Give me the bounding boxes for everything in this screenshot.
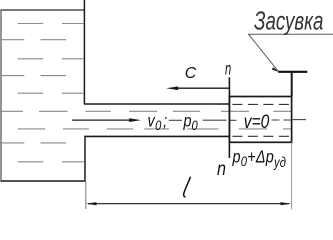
dimension extension line right: [291, 142, 293, 209]
dimension line l: [86, 202, 291, 205]
water dashes row 4: [0, 75, 66, 77]
dimension extension line left: [85, 181, 87, 209]
water surface line: [1, 9, 85, 11]
centerline dash between labels: [169, 119, 182, 121]
svg-text:n: n: [225, 59, 231, 79]
valve T-bar: [278, 71, 307, 73]
flow arrow v0: [72, 118, 141, 122]
wave speed arrow C: [166, 86, 229, 90]
dashed pipe bottom wall inside box: [232, 135, 291, 137]
water dashes row 3: [18, 58, 84, 60]
pipe top wall: [84, 103, 230, 105]
tank right wall lower: [84, 136, 86, 182]
centerline stub right of valve: [292, 119, 306, 121]
tank bottom wall: [1, 180, 86, 182]
wave-front section line n-n: [228, 77, 230, 158]
water dashes row 2: [0, 39, 66, 41]
dashed pipe top wall inside box: [232, 103, 291, 105]
centerline dashes right of p0: [203, 119, 227, 121]
swollen pipe section box: [229, 97, 291, 143]
pipe bottom wall: [85, 135, 230, 137]
water dashes row 1: [18, 23, 84, 25]
water dashes row 7: [0, 142, 66, 144]
svg-text:n: n: [217, 158, 226, 180]
centerline dashes inside box right: [272, 119, 292, 121]
valve stem: [291, 72, 293, 97]
svg-text:Засувка: Засувка: [254, 5, 323, 35]
leader line to valve: [249, 34, 279, 71]
pipe water dashes upper row: [0, 110, 291, 112]
water dashes row 9: [18, 161, 84, 163]
water dashes row 5: [18, 92, 84, 94]
leader arrow dot: [272, 67, 279, 72]
tank right wall upper: [83, 0, 85, 104]
svg-text:C: C: [185, 65, 197, 82]
tank left wall: [0, 10, 2, 182]
svg-text:v=0: v=0: [244, 111, 270, 133]
label Zasuvka underline: [248, 33, 333, 35]
pipe water dashes lower row: [18, 128, 291, 130]
label l: [184, 177, 191, 197]
